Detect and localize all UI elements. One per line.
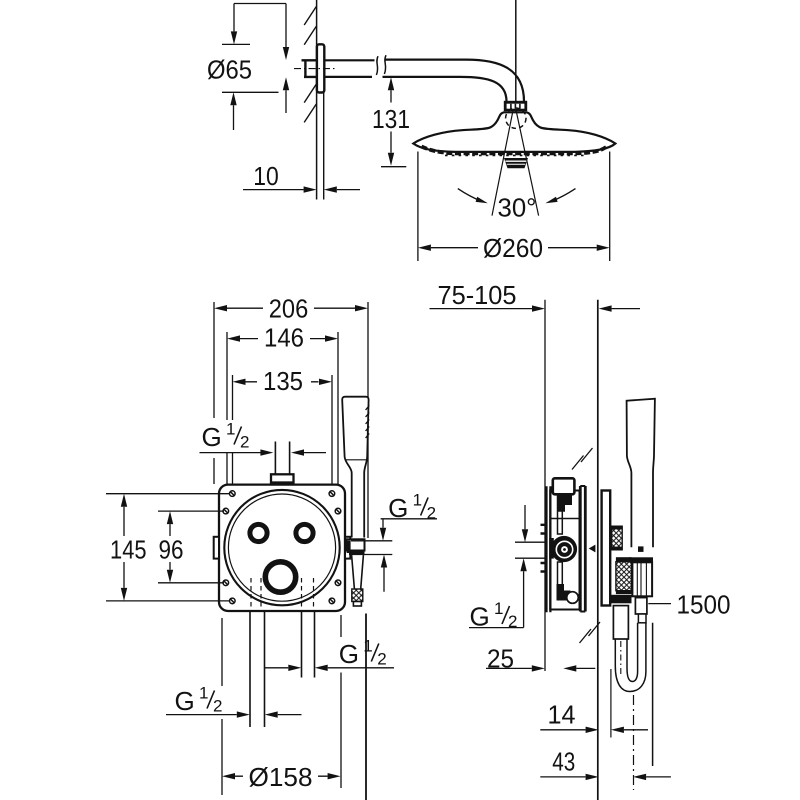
svg-text:Ø260: Ø260 [483,233,543,263]
svg-text:10: 10 [253,161,279,191]
outlet pipe lines bottom left [250,611,265,727]
hose 14 extension line [610,669,612,738]
svg-text:146: 146 [264,323,304,353]
svg-text:G: G [202,422,222,452]
G 1/2 holder leader and arrows [351,519,437,592]
pipe break symbol [376,55,386,75]
G 1/2 side leader and arrows [469,505,546,628]
svg-text:145: 145 [110,535,147,565]
hose centre dash-dot [620,641,622,676]
svg-text:1: 1 [413,491,422,510]
hidden outlet dashes [251,578,314,608]
svg-text:1: 1 [226,420,235,439]
svg-text:2: 2 [427,504,436,523]
hose outlet knurl [616,562,632,591]
spray face scallops [445,154,585,156]
svg-text:2: 2 [213,697,222,716]
control button left [250,524,267,541]
mounting plate [219,485,345,611]
hand shower side view [627,399,655,548]
outlet pipe lines bottom right [302,611,315,678]
fixing arrow marker [589,545,596,553]
supply pipe stub [275,442,289,475]
grip band [629,557,653,562]
holder bottom band [349,551,365,556]
svg-text:G: G [339,639,359,669]
plate side tab left [214,537,219,559]
svg-text:75-105: 75-105 [438,280,517,310]
svg-text:135: 135 [263,366,303,396]
hose outlet lower caps [616,591,632,595]
svg-text:2: 2 [377,650,386,669]
svg-text:G: G [175,686,195,716]
volume ring bottom [265,562,295,592]
chassis inner details [551,496,580,590]
chassis left rail [547,486,551,612]
shower head body [413,112,615,152]
label G 1/2 side [470,599,518,632]
shower arm pipe with elbow [383,60,525,102]
ball joint dashed circle [506,108,526,128]
svg-text:131: 131 [372,104,410,134]
hose front line [365,614,367,800]
thermostat face inner circle [228,494,335,601]
svg-text:Ø158: Ø158 [249,762,313,792]
wall flange Ø65 [317,44,324,92]
concealed pipe fitting [302,59,317,78]
holder notch [638,546,644,552]
hand shower grip joint line [345,459,366,461]
hose nut knurl front [352,589,363,602]
dimension Ø65 arrows [222,4,286,131]
svg-text:206: 206 [269,294,309,324]
spray angle lines [492,111,539,216]
flange front face extension line [323,92,325,200]
wall section line [316,0,318,200]
G 1/2 leader with arrows at supply stub [200,452,327,454]
hose nut cap front [353,602,361,607]
svg-text:2: 2 [240,433,249,452]
fixing screws [223,491,341,604]
central spray ring [504,158,528,168]
svg-text:96: 96 [159,535,184,565]
nut knurl lines [511,104,520,109]
top clamp bracket [553,478,575,494]
chassis left stubs [541,525,547,572]
arm centre dash-dot line [294,68,336,70]
label G 1/2 mid right [339,637,387,670]
rough-in rear reference line [544,300,546,671]
svg-text:1: 1 [199,684,208,703]
pipe axis line [515,0,517,117]
holder left bar [347,541,351,554]
shower arm pipe (wall side) [324,60,374,77]
svg-text:14: 14 [548,700,576,730]
wall hatches lower [580,622,601,643]
svg-text:Ø65: Ø65 [207,55,252,85]
label G 1/2 top left [202,420,250,453]
svg-text:30°: 30° [498,193,537,223]
grip nut cylinder [632,562,652,596]
hose right leg [638,623,646,672]
label G 1/2 right of holder [388,491,436,524]
hose U loop [615,639,646,692]
G 1/2 bottom left leader arrows [166,714,302,716]
G 1/2 mid right leader arrows [265,667,395,669]
chassis body side [550,491,579,610]
finished wall line [597,300,599,800]
wall hatches upper [572,448,593,470]
connector nut [504,101,527,111]
wall hatch marks [304,7,316,123]
hose outer drop line [652,623,654,766]
spray angle arc arrow right [552,189,576,202]
hand shower face ticks [366,406,370,439]
spray angle arc arrow left [458,189,482,202]
plate side tab right [345,537,350,559]
chassis black detail bottom [557,584,571,601]
chassis black detail top [557,495,572,511]
svg-text:43: 43 [552,747,575,777]
diverter knurl [612,526,623,550]
svg-text:1: 1 [363,637,372,656]
hose continuation dash-dot [633,695,635,790]
thermostat knob side [549,538,554,559]
rough-in box [602,491,611,606]
shower holder front [346,539,364,550]
thermostat face outer circle [224,490,339,605]
svg-text:1500: 1500 [677,590,731,620]
outlet nipple [613,606,628,639]
supply stub collar [271,474,294,482]
hand shower front view [342,397,368,538]
control button right [296,524,313,541]
grip hose nut [635,598,647,614]
holder hose cone front [352,555,364,589]
chassis bottom circle detail [567,592,579,604]
svg-text:1: 1 [494,599,503,618]
spray face nozzle band [422,147,608,154]
label G 1/2 bottom left [175,684,223,717]
trim plate edge-on [580,486,585,612]
hose outlet knurl cap [616,557,632,562]
